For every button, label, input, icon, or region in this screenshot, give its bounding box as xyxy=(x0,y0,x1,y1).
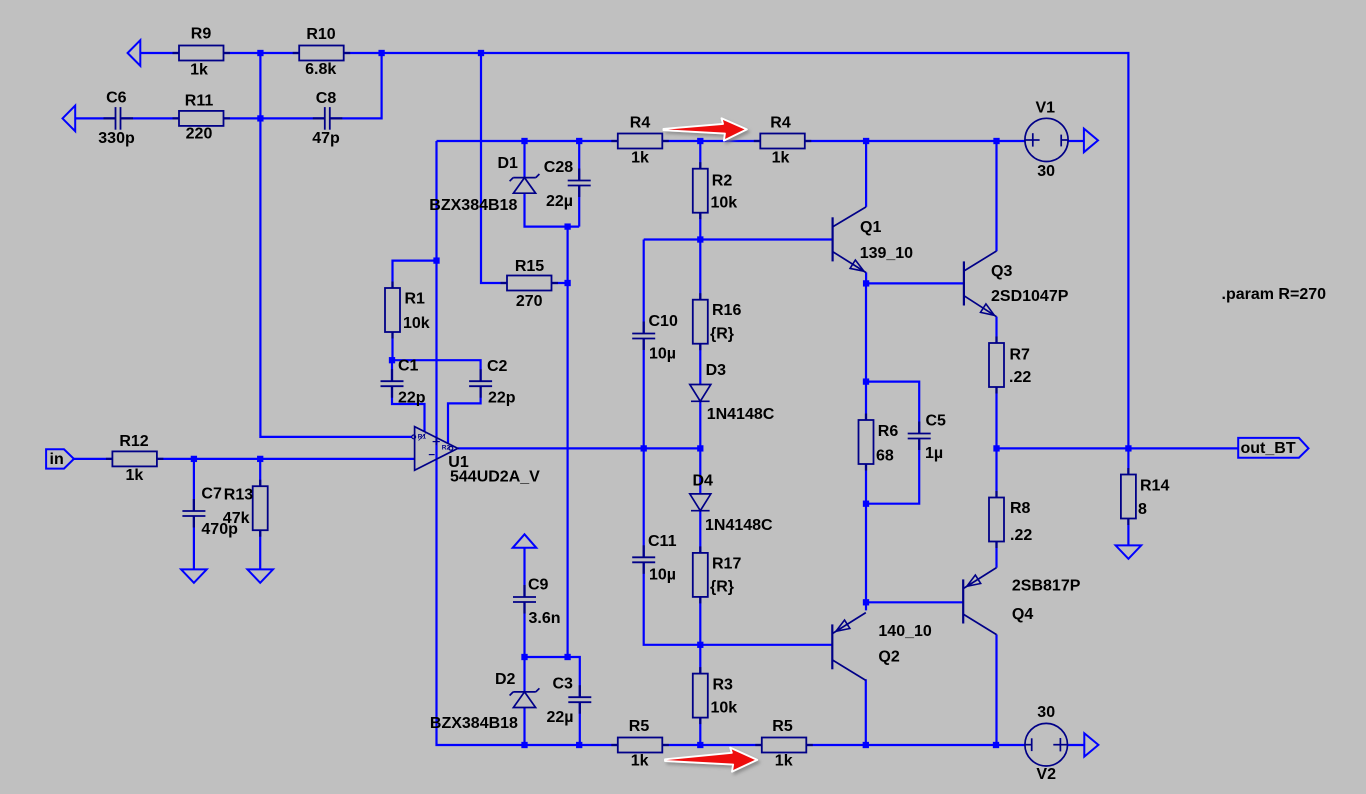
svg-text:2SB817P: 2SB817P xyxy=(1012,578,1081,595)
capacitor C11 xyxy=(632,533,676,584)
resistor R5a xyxy=(611,718,669,769)
svg-text:1N4148C: 1N4148C xyxy=(707,406,775,423)
resistor R9 xyxy=(173,26,231,79)
wire xyxy=(224,52,300,54)
capacitor C2 xyxy=(469,358,516,407)
wire xyxy=(448,386,481,443)
wire xyxy=(995,141,997,251)
junction xyxy=(697,742,703,748)
diode D4 xyxy=(690,473,773,535)
resistor R8 xyxy=(989,491,1032,548)
svg-text:1k: 1k xyxy=(772,150,790,167)
svg-text:in: in xyxy=(50,451,64,468)
wire xyxy=(193,459,195,511)
resistor R4a xyxy=(611,115,669,167)
resistor R2 xyxy=(693,162,737,219)
junction xyxy=(433,257,439,263)
svg-text:C8: C8 xyxy=(316,90,337,107)
wire xyxy=(391,360,393,381)
svg-text:Q4: Q4 xyxy=(1012,606,1033,623)
junction xyxy=(257,456,263,462)
svg-text:R4: R4 xyxy=(630,115,651,132)
junction xyxy=(564,280,570,286)
wire xyxy=(865,141,867,207)
wire xyxy=(393,261,437,288)
wire xyxy=(865,283,867,420)
capacitor C10 xyxy=(632,313,678,363)
svg-text:R10: R10 xyxy=(306,26,335,43)
wire xyxy=(643,240,645,334)
diode D3 xyxy=(690,362,775,423)
junction xyxy=(521,138,527,144)
wire xyxy=(437,141,618,745)
wire xyxy=(392,360,481,381)
capacitor C28 xyxy=(544,159,591,210)
wire xyxy=(866,382,919,434)
junction xyxy=(863,138,869,144)
svg-text:BZX384B18: BZX384B18 xyxy=(429,197,517,214)
wire xyxy=(391,332,393,360)
wire xyxy=(458,447,701,449)
wire xyxy=(525,657,580,697)
svg-text:R7: R7 xyxy=(1010,346,1031,363)
svg-text:C9: C9 xyxy=(528,576,549,593)
svg-text:R12: R12 xyxy=(119,433,148,450)
svg-text:Q1: Q1 xyxy=(860,219,881,236)
wire xyxy=(865,464,867,610)
svg-text:68: 68 xyxy=(876,448,894,465)
svg-text:470p: 470p xyxy=(201,521,238,538)
junction xyxy=(521,742,527,748)
junction xyxy=(1125,445,1131,451)
wire xyxy=(866,440,919,504)
capacitor C6 xyxy=(98,90,135,148)
capacitor C8 xyxy=(312,90,342,147)
junction xyxy=(191,456,197,462)
resistor R10 xyxy=(293,26,351,78)
svg-text:Q3: Q3 xyxy=(991,263,1012,280)
wire xyxy=(75,117,115,119)
wire xyxy=(224,117,325,119)
svg-text:22p: 22p xyxy=(488,390,516,407)
svg-text:1k: 1k xyxy=(631,752,649,769)
wire xyxy=(578,186,580,227)
svg-text:BZX384B18: BZX384B18 xyxy=(430,715,518,732)
svg-text:R5: R5 xyxy=(772,718,793,735)
svg-text:1k: 1k xyxy=(190,62,208,79)
power flag above C9 xyxy=(513,534,537,548)
junction xyxy=(564,223,570,229)
junction xyxy=(378,50,384,56)
svg-text:10k: 10k xyxy=(403,315,430,332)
svg-text:R1: R1 xyxy=(405,291,426,308)
svg-text:3.6n: 3.6n xyxy=(529,610,561,627)
junction xyxy=(697,642,703,648)
junction xyxy=(863,501,869,507)
net flag top-left xyxy=(128,40,141,66)
svg-text:10µ: 10µ xyxy=(649,566,676,583)
svg-text:Q2: Q2 xyxy=(878,649,899,666)
wire xyxy=(662,140,760,142)
svg-text:{R}: {R} xyxy=(710,578,734,595)
voltage source V2 xyxy=(1025,704,1068,783)
wire xyxy=(1068,744,1085,746)
annotation arrow 1 xyxy=(664,118,747,140)
junction xyxy=(993,742,999,748)
zener diode D2 xyxy=(430,671,540,732)
junction xyxy=(863,280,869,286)
wire xyxy=(260,53,411,437)
svg-text:R15: R15 xyxy=(515,258,544,275)
svg-text:R8: R8 xyxy=(1010,500,1031,517)
resistor R6 xyxy=(859,414,899,471)
wire xyxy=(523,657,525,692)
svg-text:{R}: {R} xyxy=(710,326,734,343)
svg-text:1N4148C: 1N4148C xyxy=(705,517,773,534)
wire xyxy=(1127,519,1129,546)
wire xyxy=(437,140,618,142)
svg-text:C10: C10 xyxy=(649,313,678,330)
resistor R14 xyxy=(1121,468,1170,525)
svg-text:C3: C3 xyxy=(553,676,574,693)
resistor R1 xyxy=(385,282,430,339)
wire xyxy=(865,272,867,283)
junction xyxy=(257,50,263,56)
svg-text:R17: R17 xyxy=(712,555,741,572)
wire xyxy=(523,548,525,597)
wire xyxy=(259,459,261,486)
svg-text:8: 8 xyxy=(1138,501,1147,518)
svg-text:R14: R14 xyxy=(1140,477,1169,494)
wire xyxy=(699,512,701,553)
port out_BT xyxy=(1238,438,1308,458)
svg-text:10k: 10k xyxy=(711,194,738,211)
junction xyxy=(697,236,703,242)
svg-text:30: 30 xyxy=(1037,163,1055,180)
wire xyxy=(552,282,568,284)
svg-text:R6: R6 xyxy=(878,423,899,440)
svg-text:30: 30 xyxy=(1037,704,1055,721)
svg-text:C5: C5 xyxy=(926,413,947,430)
svg-text:22µ: 22µ xyxy=(546,193,573,210)
junction xyxy=(863,378,869,384)
wire xyxy=(805,140,1025,142)
junction xyxy=(993,445,999,451)
svg-text:1k: 1k xyxy=(775,752,793,769)
junction xyxy=(478,50,484,56)
wire xyxy=(344,53,1129,448)
capacitor C5 xyxy=(908,413,946,463)
svg-text:R4: R4 xyxy=(770,115,791,132)
svg-text:C1: C1 xyxy=(398,357,419,374)
svg-text:V2: V2 xyxy=(1036,766,1056,783)
svg-text:D1: D1 xyxy=(498,155,519,172)
svg-text:C6: C6 xyxy=(106,90,127,107)
wire xyxy=(1068,140,1084,142)
svg-text:330p: 330p xyxy=(98,130,135,147)
wire xyxy=(699,402,701,494)
wire xyxy=(74,458,113,460)
wire xyxy=(995,317,997,343)
svg-text:544UD2A_V: 544UD2A_V xyxy=(450,469,540,486)
junction xyxy=(641,445,647,451)
port in xyxy=(46,449,74,468)
resistor R12 xyxy=(106,433,163,484)
resistor R7 xyxy=(989,337,1031,394)
wire xyxy=(259,530,261,569)
wire xyxy=(330,53,381,118)
wire xyxy=(122,117,179,119)
svg-text:C2: C2 xyxy=(487,358,508,375)
capacitor C7 xyxy=(182,486,238,539)
svg-text:C11: C11 xyxy=(648,533,677,550)
wire xyxy=(995,635,997,746)
resistor R16 xyxy=(693,293,742,350)
svg-text:D4: D4 xyxy=(693,473,714,490)
junction xyxy=(389,357,395,363)
resistor R3 xyxy=(693,667,737,724)
junction xyxy=(993,138,999,144)
wire xyxy=(866,601,963,603)
svg-text:10k: 10k xyxy=(711,700,738,717)
svg-text:140_10: 140_10 xyxy=(878,623,931,640)
wire xyxy=(995,542,997,568)
svg-text:R2: R2 xyxy=(712,173,733,190)
transistor Q1 xyxy=(833,207,914,273)
svg-text:1k: 1k xyxy=(631,150,649,167)
wire xyxy=(481,53,507,283)
wire xyxy=(995,387,997,498)
svg-text:1k: 1k xyxy=(126,467,144,484)
resistor R11 xyxy=(173,93,231,143)
resistor R4b xyxy=(754,115,812,167)
wire xyxy=(699,141,701,169)
wire xyxy=(662,744,762,746)
wire xyxy=(644,563,833,645)
wire xyxy=(140,52,179,54)
svg-text:10µ: 10µ xyxy=(649,346,676,363)
junction xyxy=(576,138,582,144)
wire xyxy=(866,282,964,284)
svg-text:220: 220 xyxy=(186,126,213,143)
wire xyxy=(193,516,195,570)
annotation arrow 2 xyxy=(665,748,757,772)
junction xyxy=(564,654,570,660)
wire xyxy=(1127,448,1129,474)
wire xyxy=(578,141,580,181)
wire xyxy=(392,386,425,431)
wire xyxy=(643,339,645,558)
wire xyxy=(699,718,701,745)
svg-text:D3: D3 xyxy=(706,362,727,379)
svg-text:C28: C28 xyxy=(544,159,573,176)
transistor Q4 xyxy=(963,568,1081,635)
resistor R5b xyxy=(755,718,813,769)
junction xyxy=(863,742,869,748)
transistor Q2 xyxy=(832,613,932,681)
svg-text:47p: 47p xyxy=(312,130,340,147)
junction xyxy=(697,138,703,144)
wire xyxy=(699,213,701,300)
junction xyxy=(697,445,703,451)
ground under R13 xyxy=(247,569,273,582)
svg-text:22p: 22p xyxy=(398,390,426,407)
svg-text:R3: R3 xyxy=(713,676,734,693)
junction xyxy=(257,115,263,121)
ground under C7 xyxy=(181,569,207,582)
wire xyxy=(566,227,568,657)
wire xyxy=(865,679,867,745)
svg-text:R11: R11 xyxy=(185,93,214,110)
svg-text:6.8k: 6.8k xyxy=(305,61,336,78)
wire xyxy=(997,447,1239,449)
svg-text:139_10: 139_10 xyxy=(860,245,913,262)
resistor R13 xyxy=(223,480,268,537)
wire xyxy=(699,344,701,385)
wire xyxy=(525,193,580,226)
junction xyxy=(521,654,527,660)
svg-text:D2: D2 xyxy=(495,671,516,688)
svg-text:.22: .22 xyxy=(1009,369,1031,386)
svg-text:1µ: 1µ xyxy=(925,445,943,462)
svg-text:R16: R16 xyxy=(712,302,741,319)
capacitor C3 xyxy=(547,676,592,726)
capacitor C1 xyxy=(381,357,426,406)
svg-text:22µ: 22µ xyxy=(547,709,574,726)
resistor R17 xyxy=(693,546,742,603)
svg-text:out_BT: out_BT xyxy=(1241,440,1296,457)
wire xyxy=(157,458,415,460)
svg-text:V1: V1 xyxy=(1036,99,1056,116)
svg-text:C7: C7 xyxy=(201,486,222,503)
svg-text:.param R=270: .param R=270 xyxy=(1222,286,1327,303)
net flag V1 right xyxy=(1084,129,1098,153)
wire xyxy=(523,708,525,745)
wire xyxy=(523,602,525,657)
wire xyxy=(699,597,701,674)
junction xyxy=(576,742,582,748)
capacitor C9 xyxy=(513,576,561,627)
voltage source V1 xyxy=(1025,99,1068,180)
net flag V2 right xyxy=(1084,733,1098,756)
svg-text:R9: R9 xyxy=(191,26,212,43)
svg-text:R5: R5 xyxy=(629,718,650,735)
wire xyxy=(644,238,833,240)
op-amp U1 xyxy=(412,427,540,486)
wire xyxy=(579,702,581,745)
svg-text:270: 270 xyxy=(516,293,543,310)
svg-text:2SD1047P: 2SD1047P xyxy=(991,288,1069,305)
transistor Q3 xyxy=(964,251,1069,317)
svg-text:.22: .22 xyxy=(1010,527,1032,544)
junction xyxy=(863,599,869,605)
directive .param R=270 xyxy=(1222,286,1327,303)
wire xyxy=(523,141,525,178)
resistor R15 xyxy=(501,258,559,310)
svg-text:R13: R13 xyxy=(224,487,253,504)
ground under R14 xyxy=(1116,545,1142,558)
net flag mid-left xyxy=(63,106,76,132)
wire xyxy=(806,744,1025,746)
zener diode D1 xyxy=(429,155,539,214)
